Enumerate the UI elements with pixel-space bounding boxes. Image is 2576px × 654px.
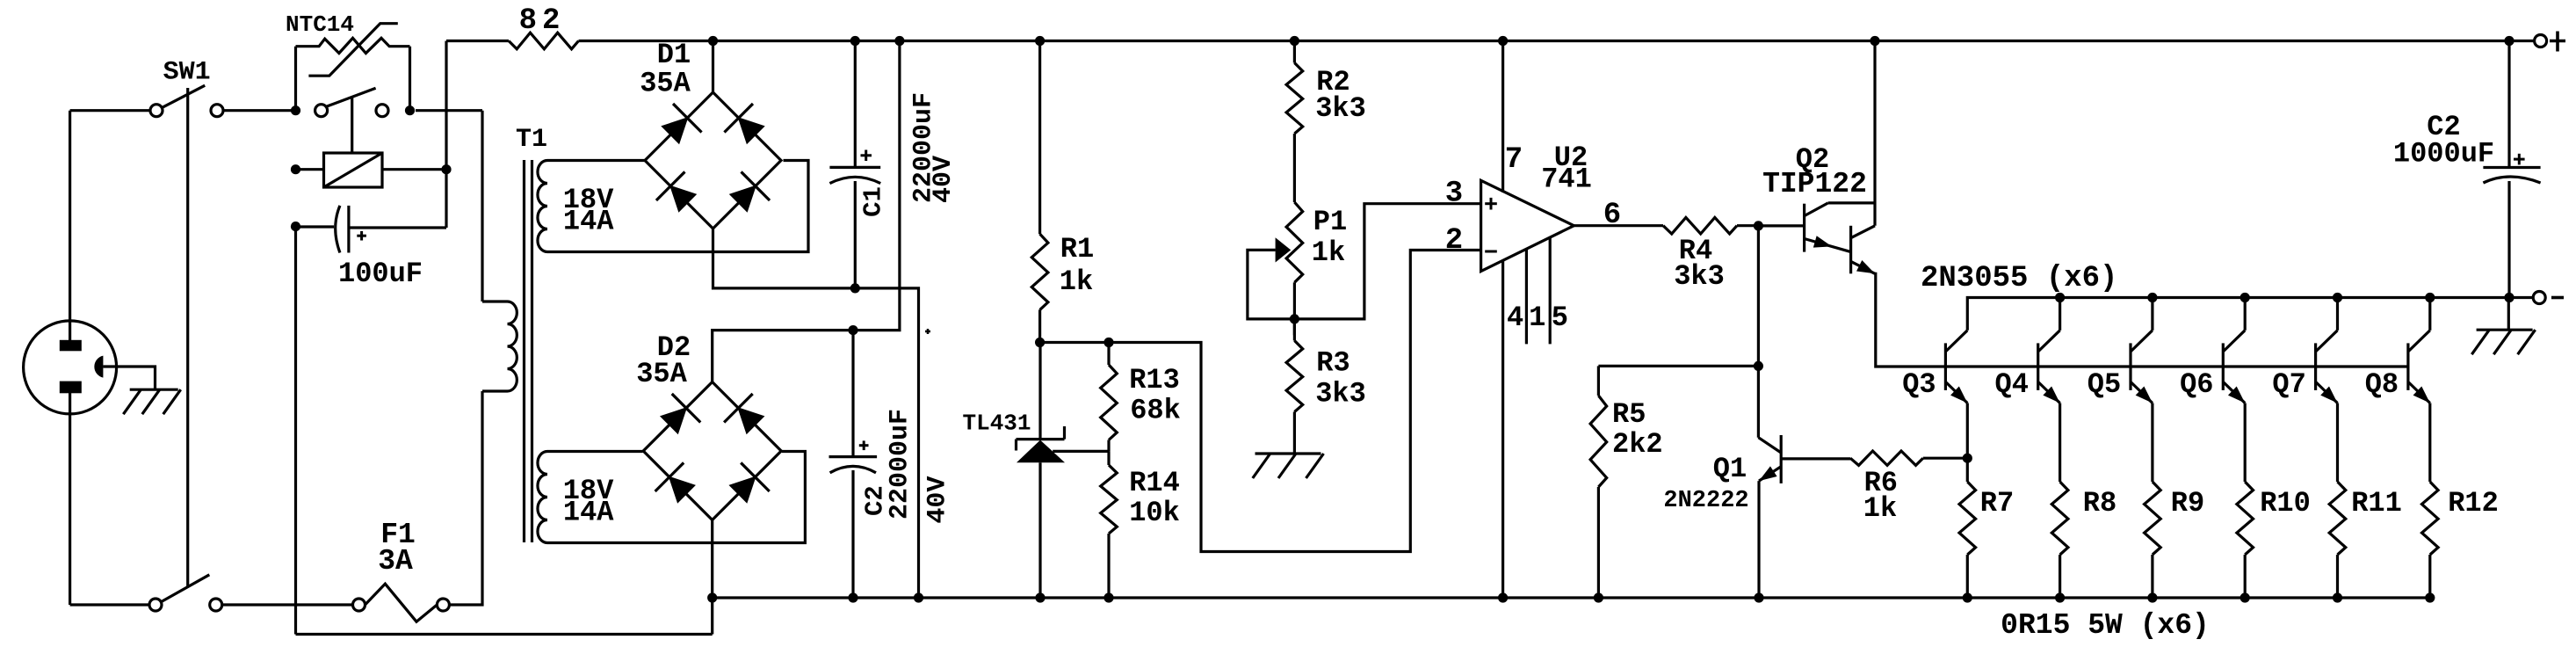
resistor R14 10k (1101, 451, 1118, 598)
svg-text:40V: 40V (923, 476, 953, 524)
wire: contact node to transformer (416, 109, 482, 112)
svg-text:35A: 35A (636, 358, 687, 390)
node: R8 bottom on rail (2055, 592, 2065, 602)
bridge rectifier D2 35A (643, 382, 781, 520)
node: Q7 collector on -V rail (2333, 293, 2342, 302)
svg-text:R1: R1 (1060, 233, 1094, 265)
transformer T1 primary winding (482, 302, 517, 391)
svg-text:0R15 5W (x6): 0R15 5W (x6) (2001, 609, 2210, 642)
svg-text:R12: R12 (2448, 487, 2499, 520)
node: R2 top on rail (1290, 36, 1299, 46)
svg-text:7: 7 (1505, 143, 1523, 177)
transformer T1 core (525, 160, 532, 542)
node: Q4 collector on -V rail (2055, 293, 2065, 302)
bridge rectifier D1 35A (645, 92, 781, 229)
wire: AC to primary top (481, 111, 483, 302)
ground (output) (2471, 298, 2535, 355)
node: C2 output bottom on -V rail (2504, 293, 2514, 302)
thermistor NTC14 (296, 24, 410, 76)
wire: AC live from plug to SW1 (70, 109, 150, 112)
wire: NTC right leg (409, 47, 411, 111)
wire: Q7 collector riser (2336, 298, 2339, 331)
node: R9 bottom on rail (2147, 592, 2157, 602)
wire: secondary1 top to D1 AC left (547, 159, 645, 162)
wire: secondary1 bottom to D1 AC right (547, 161, 808, 252)
wire: Q5 emitter drop (2151, 403, 2153, 483)
wire: Q5 collector riser (2151, 298, 2153, 331)
svg-text:6: 6 (1603, 199, 1621, 232)
wire: D2 plus riser to top rail (713, 41, 900, 382)
transistor Q4 2N3055 (2038, 331, 2060, 403)
svg-text:14A: 14A (563, 205, 614, 237)
resistor R10 0R15 (2237, 482, 2254, 598)
shunt reference TL431 (1017, 343, 1066, 599)
svg-text:2: 2 (1445, 224, 1463, 258)
ground (plug earth) (123, 389, 180, 414)
wire: secondary2 bottom to D2 AC right (547, 452, 805, 543)
wire: secondary2 top to D2 AC left (547, 450, 643, 453)
node: NTC right junction (405, 105, 415, 115)
wire: Q2 collector to rail (1873, 41, 1876, 226)
svg-text:R9: R9 (2171, 487, 2204, 520)
svg-text:Q5: Q5 (2088, 368, 2121, 401)
svg-text:R8: R8 (2083, 487, 2117, 520)
ground (R3) (1253, 454, 1324, 478)
svg-text:1k: 1k (1863, 492, 1897, 525)
op-amp U2 741 (1481, 180, 1574, 271)
transistor Q5 2N3055 (2131, 331, 2153, 403)
svg-text:35A: 35A (640, 68, 691, 100)
node: D1 minus on rail (914, 592, 923, 602)
svg-text:SW1: SW1 (163, 58, 211, 88)
capacitor C2 1000uF (output) (2483, 41, 2540, 298)
wire: op-amp output pin 6 (1574, 224, 1663, 227)
wire: NTC left leg (294, 47, 297, 111)
node: Q2 collector on rail (1870, 36, 1879, 46)
wire: fuse to transformer primary (449, 391, 482, 605)
svg-text:1000uF: 1000uF (2393, 138, 2494, 171)
node: D1 plus on rail (708, 36, 718, 46)
wire: AC neutral from plug to SW1 bottom (70, 603, 149, 606)
switch SW1 (DPST) (149, 85, 223, 611)
transformer T1 secondary 1 (18V 14A) (538, 161, 547, 252)
node: P1 wiper junction (1290, 314, 1299, 323)
wire: D1 plus to top rail (712, 41, 714, 93)
fuse F1 3A (353, 584, 450, 621)
svg-text:T1: T1 (516, 125, 547, 155)
potentiometer P1 1k (1248, 202, 1303, 335)
svg-text:100uF: 100uF (338, 258, 423, 290)
node: pin4 on rail (1498, 592, 1508, 602)
wire: Q7 emitter drop (2336, 403, 2339, 483)
node: Q5 collector on -V rail (2147, 293, 2157, 302)
svg-text:TL431: TL431 (962, 411, 1031, 437)
pin 5 lead (1549, 237, 1552, 344)
svg-text:40V: 40V (929, 156, 959, 203)
node: R5 bottom on rail (1594, 592, 1603, 602)
node: pin7 on rail (1498, 36, 1508, 46)
svg-text:R13: R13 (1129, 364, 1180, 396)
wire: relay return drop (x=336.5) (294, 227, 297, 635)
wire: D1 minus run to dropper (713, 229, 919, 598)
resistor R12 0R15 (2422, 482, 2439, 598)
wire: relay coil right lead (382, 168, 446, 171)
svg-text:1: 1 (1529, 302, 1545, 334)
node: R1 top on rail (1035, 36, 1045, 46)
node: C2 output top on rail (2504, 36, 2514, 46)
svg-text:R3: R3 (1316, 347, 1350, 380)
resistor R9 0R15 (2145, 482, 2161, 598)
node: C2 filter bottom on rail (848, 592, 857, 602)
wire: relay supply riser to 82 ohm (445, 41, 447, 229)
node: coil right junction (441, 164, 451, 174)
resistor R8 0R15 (2051, 482, 2068, 598)
wire: Q4 collector riser (2059, 298, 2061, 331)
svg-text:Q1: Q1 (1713, 453, 1747, 485)
svg-text:Q7: Q7 (2272, 368, 2305, 401)
wire: relay coil left lead (296, 168, 324, 171)
node: R14 bottom on rail (1103, 592, 1113, 602)
svg-text:14A: 14A (563, 496, 614, 528)
wire: SW1 to NTC node (223, 109, 296, 112)
resistor R7 0R15 (1959, 482, 1976, 598)
svg-text:741: 741 (1541, 163, 1592, 195)
svg-text:2N2222: 2N2222 (1663, 488, 1748, 514)
node: NTC left junction (291, 105, 300, 115)
resistor R5 2k2 (1590, 366, 1607, 598)
svg-text:3k3: 3k3 (1315, 378, 1366, 411)
svg-text:Q4: Q4 (1994, 368, 2028, 401)
wire: Q8 emitter drop (2428, 403, 2431, 483)
node: D2 minus on bottom rail (707, 592, 717, 602)
svg-text:3k3: 3k3 (1315, 92, 1366, 125)
node: R1/TL431 junction (1035, 338, 1045, 347)
wire: -V collector rail (1967, 298, 2535, 331)
resistor R3 3k3 (1286, 319, 1303, 454)
svg-text:Q3: Q3 (1902, 368, 1936, 401)
pin 4 lead (1501, 260, 1504, 598)
wire: plug earth lead (103, 367, 155, 389)
svg-text:2k2: 2k2 (1612, 428, 1663, 461)
wire: Q4 emitter drop (2059, 403, 2061, 483)
svg-text:3k3: 3k3 (1674, 260, 1725, 293)
svg-text:Q6: Q6 (2180, 368, 2213, 401)
node: Q6 collector on -V rail (2240, 293, 2250, 302)
pin 7 lead (1501, 41, 1504, 193)
svg-text:5: 5 (1552, 302, 1568, 334)
transistor Q6 2N3055 (2223, 331, 2245, 403)
svg-text:TIP122: TIP122 (1762, 168, 1867, 200)
relay coil K1 (324, 153, 383, 187)
capacitor C3 100uF (336, 206, 366, 253)
transistor Q3 2N3055 (1945, 331, 1967, 403)
svg-text:C1: C1 (859, 186, 888, 217)
terminal: + output (2535, 32, 2565, 52)
wire: R1 bottom node to inverting path (1040, 251, 1481, 552)
node: C2 filter top junction (848, 325, 857, 335)
svg-text:82: 82 (519, 4, 566, 38)
wire: Q2 emitter to base bus (1875, 273, 2408, 367)
resistor R11 0R15 (2329, 482, 2346, 598)
node: C1 top on rail (850, 36, 860, 46)
wire: bottom 0V rail (713, 596, 2431, 599)
wire: plug bottom prong lead (69, 392, 71, 605)
wire: R5 top run (1598, 365, 1758, 367)
resistor R1 1k (1031, 41, 1048, 343)
resistor R4 3k3 (1663, 217, 1758, 234)
wire: Q6 emitter drop (2244, 403, 2247, 483)
resistor R2 3k3 (1286, 41, 1303, 203)
node: Q1 emitter on rail (1754, 592, 1763, 602)
wire: Q6 collector riser (2244, 298, 2247, 331)
node: Q1 collector junction (1754, 361, 1763, 371)
node: 100uF left junction (291, 222, 300, 231)
capacitor C2 22000uF 40V (filter) (829, 331, 878, 598)
node: R11 bottom on rail (2333, 592, 2342, 602)
capacitor C1 22000uF 40V (829, 41, 880, 288)
svg-text:2N3055 (x6): 2N3055 (x6) (1921, 262, 2117, 295)
node: R12 bottom on rail (2425, 592, 2435, 602)
resistor 82 (446, 33, 579, 49)
svg-text:NTC14: NTC14 (286, 11, 354, 38)
wire: wiper node to op-amp pin3 (1294, 204, 1480, 319)
terminal: - output (2533, 292, 2564, 304)
node: D2 plus on rail (894, 36, 904, 46)
artifact speck (925, 331, 930, 333)
node: R13 top junction (1103, 338, 1113, 347)
svg-text:10k: 10k (1129, 497, 1180, 529)
wire: Q8 collector riser (2428, 298, 2431, 331)
svg-text:1k: 1k (1060, 265, 1093, 298)
svg-text:R11: R11 (2351, 487, 2402, 520)
transistor Q7 2N3055 (2316, 331, 2338, 403)
svg-text:P1: P1 (1313, 206, 1347, 238)
node: R10 bottom on rail (2240, 592, 2250, 602)
wire: SW1 bottom to fuse (222, 603, 353, 606)
wire: 100uF left lead (296, 225, 335, 228)
svg-text:4: 4 (1507, 302, 1523, 334)
svg-text:3A: 3A (378, 545, 413, 578)
svg-text:3: 3 (1445, 177, 1463, 210)
wire: TL431 ref to divider (1053, 450, 1109, 453)
wire: relay return bottom run (296, 633, 713, 636)
node: Q8 collector on -V rail (2425, 293, 2435, 302)
svg-text:R14: R14 (1129, 467, 1180, 499)
svg-text:R7: R7 (1980, 487, 2014, 520)
resistor R6 1k (1850, 451, 1967, 465)
wire: base node drop (1757, 226, 1760, 367)
node: Q2 base node (1754, 221, 1763, 230)
svg-text:Q8: Q8 (2365, 368, 2399, 401)
wire: D2 minus drop (711, 520, 713, 635)
transistor Q8 2N3055 (2408, 331, 2430, 403)
node: C1 minus junction (850, 283, 860, 293)
wire: Q3 emitter drop (1966, 403, 1969, 483)
relay contact K1 (315, 88, 388, 153)
svg-text:22000uF: 22000uF (886, 409, 915, 520)
node: TL431 anode on rail (1035, 592, 1045, 602)
AC plug J1 (24, 321, 117, 414)
svg-text:D1: D1 (657, 39, 691, 71)
resistor R13 68k (1101, 343, 1118, 452)
wire: plug top prong lead (69, 111, 71, 341)
transformer T1 secondary 2 (18V 14A) (538, 452, 547, 543)
pin 1 lead (1525, 249, 1528, 344)
svg-text:R10: R10 (2260, 487, 2311, 520)
node: R6/Q3 emitter junction (1963, 454, 1972, 463)
wire: top +V rail (579, 40, 2536, 42)
transistor Q1 2N2222 (1758, 366, 1850, 598)
svg-text:1k: 1k (1312, 236, 1345, 269)
wire: 100uF right lead (349, 226, 446, 229)
transistor Q2 TIP122 (darlington) (1758, 203, 1875, 273)
svg-text:68k: 68k (1130, 394, 1181, 426)
svg-text:R5: R5 (1612, 398, 1646, 431)
node: coil left junction (291, 164, 300, 174)
node: R7 bottom on rail (1963, 592, 1972, 602)
